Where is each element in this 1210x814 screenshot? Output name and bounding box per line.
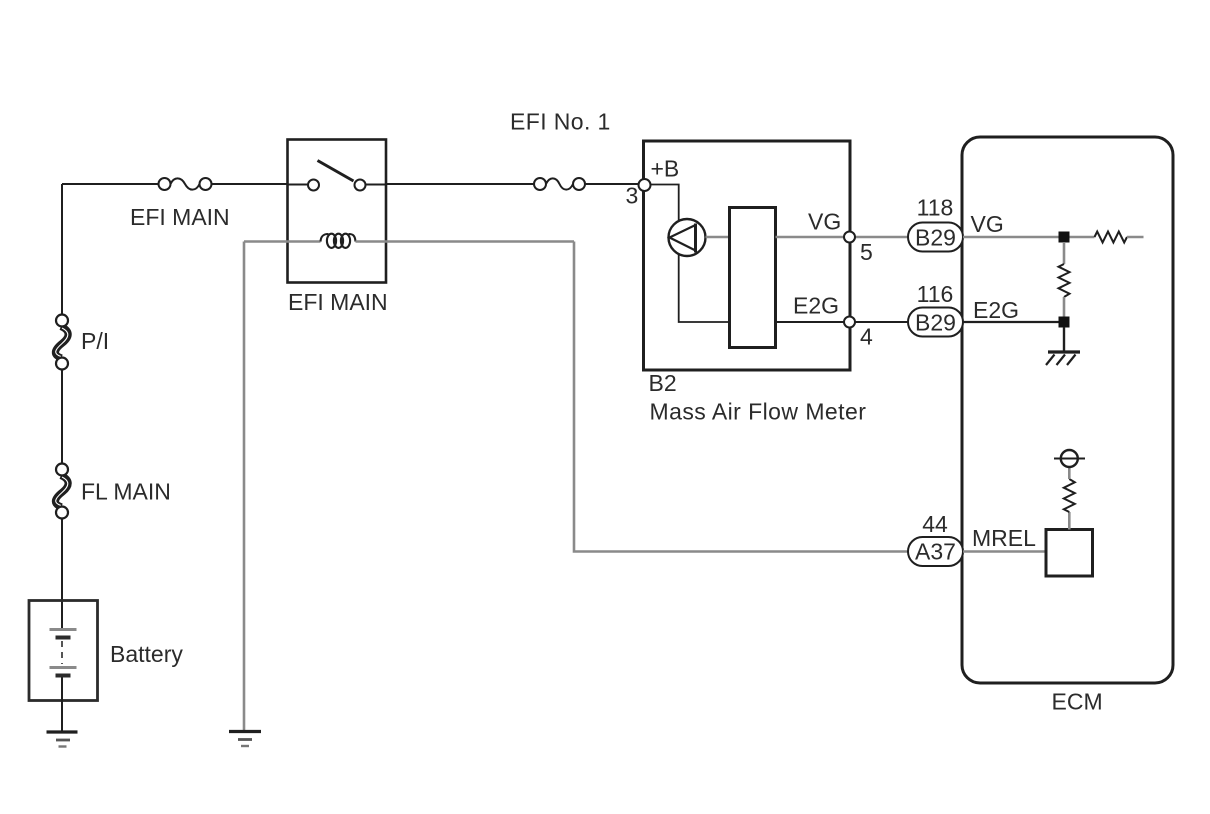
MAF box B2: [644, 141, 851, 370]
svg-text:116: 116: [917, 281, 954, 307]
svg-text:B2: B2: [649, 370, 677, 396]
svg-text:3: 3: [626, 183, 639, 209]
transistor (MAF): [669, 219, 706, 256]
node 3 (+B terminal): [639, 179, 651, 191]
wire: transistor to sensing element (gray): [706, 236, 730, 239]
svg-text:VG: VG: [971, 211, 1004, 237]
connector B29 pin 118 (VG): [908, 223, 963, 252]
connector B29 pin 116 (E2G): [908, 308, 963, 337]
relay coil: [321, 234, 356, 248]
svg-text:P/I: P/I: [81, 328, 109, 354]
wire: P/I to FL MAIN: [61, 370, 63, 464]
wire: E2G junction to chassis ground: [1063, 327, 1065, 351]
sensing element rectangle: [730, 208, 776, 348]
svg-text:E2G: E2G: [793, 293, 839, 319]
svg-text:FL MAIN: FL MAIN: [81, 479, 171, 505]
fuse EFI No. 1: [534, 178, 585, 190]
fusible link FL MAIN: [55, 464, 68, 519]
svg-text:E2G: E2G: [973, 297, 1019, 323]
wire: VG inside ECM to junction (gray): [963, 236, 1064, 239]
svg-text:B29: B29: [915, 225, 956, 251]
MAF internal wire: +B down and across to sensor bottom: [650, 185, 730, 323]
wire: top feed horizontal from x=62 to EFI MAIN fuse: [62, 183, 159, 185]
wire: FL MAIN to battery: [61, 519, 63, 630]
svg-text:5: 5: [860, 239, 873, 265]
ground (relay coil): [229, 732, 261, 747]
B+ terminal (circle with crossbar): [1054, 450, 1085, 467]
node 4 (E2G terminal): [844, 317, 855, 328]
svg-text:+B: +B: [651, 156, 680, 182]
battery box: [29, 601, 98, 701]
wire: MREL inside ECM to driver box (gray): [963, 550, 1046, 553]
ECM box: [962, 137, 1173, 683]
fuse EFI MAIN (circle-squiggle-circle): [159, 178, 212, 190]
battery cell plates: [50, 630, 77, 676]
wire: resistor to B+ terminal (gray): [1068, 467, 1071, 479]
wire: relay coil lead left (gray): [244, 240, 321, 243]
junction dot E2G: [1059, 317, 1070, 328]
wire: junction to resistor (gray): [1064, 236, 1095, 239]
wire: junction down to vertical resistor (gray): [1063, 242, 1066, 264]
svg-text:A37: A37: [915, 539, 956, 565]
chassis ground (ECM): [1046, 352, 1080, 365]
svg-text:B29: B29: [915, 310, 956, 336]
wire: battery feed vertical x=62 from top wire to P/I fuse: [61, 184, 63, 315]
MREL driver box (ECM): [1046, 530, 1093, 577]
svg-text:4: 4: [860, 324, 873, 350]
svg-text:118: 118: [917, 195, 954, 221]
svg-text:ECM: ECM: [1052, 689, 1103, 715]
resistor (VG-E2G, vertical): [1059, 264, 1070, 297]
resistor (VG pull-up, horizontal): [1095, 232, 1128, 243]
wire: relay coil lead right to x=574 (gray): [356, 240, 575, 243]
svg-text:MREL: MREL: [972, 525, 1036, 551]
svg-text:EFI No. 1: EFI No. 1: [510, 109, 611, 135]
ground (battery): [47, 732, 78, 747]
wire: driver box up to resistor (gray): [1068, 512, 1071, 530]
svg-text:EFI MAIN: EFI MAIN: [130, 204, 230, 230]
svg-text:Battery: Battery: [110, 641, 183, 667]
wire: resistor tail (gray): [1127, 236, 1144, 239]
svg-text:Mass Air Flow Meter: Mass Air Flow Meter: [650, 399, 867, 425]
wire: coil ground drop x=244.5 (gray): [243, 242, 246, 732]
connector A37 pin 44 (MREL): [908, 537, 963, 566]
wire: fuse to relay box: [212, 183, 288, 185]
wire: relay to EFI No.1 fuse: [386, 183, 534, 185]
svg-text:44: 44: [922, 511, 948, 537]
wire: vertical resistor to E2G junction (gray): [1063, 297, 1066, 322]
resistor (MREL pull-up, vertical): [1064, 479, 1075, 512]
relay switch contacts and blade: [288, 161, 387, 191]
wire: fuse to MAF +B node: [585, 183, 638, 185]
fusible link P/I: [55, 315, 68, 370]
node 5 (VG terminal): [844, 232, 855, 243]
wire: E2G out of sensing element: [776, 321, 909, 323]
wire: battery to ground: [61, 678, 63, 732]
wire: MREL control run from relay coil to A37 (gray): [574, 242, 908, 552]
svg-text:VG: VG: [808, 209, 841, 235]
wire: E2G inside ECM to junction: [963, 321, 1064, 323]
junction dot VG: [1059, 232, 1070, 243]
relay EFI MAIN box: [288, 140, 387, 283]
wire: VG out of sensing element (gray): [776, 236, 909, 239]
svg-text:EFI MAIN: EFI MAIN: [288, 289, 388, 315]
